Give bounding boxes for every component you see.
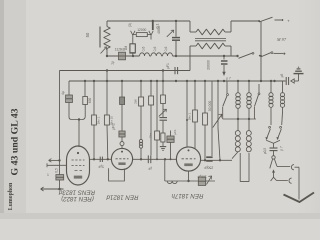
column x157 grid resistor Dkr10	[156, 81, 158, 131]
capacitor coupling V1-V2	[99, 157, 101, 162]
node x79 y119.5	[78, 118, 80, 120]
capacitor electrolytic 100uF	[198, 177, 205, 185]
column x69 capacitor 4u	[68, 81, 70, 95]
node top rail junction x153	[152, 20, 154, 22]
tube V1 cathode bar	[74, 176, 82, 179]
node bus x249	[248, 80, 250, 82]
wire blades converge	[266, 140, 280, 143]
wire V3 anode to transformer	[201, 159, 232, 161]
node grid rail x163	[162, 69, 164, 71]
wire y119	[223, 118, 256, 120]
svg-text:2W: 2W	[134, 99, 138, 104]
wire x165 riser	[164, 159, 166, 181]
output transformer winding left	[235, 131, 240, 136]
svg-text:M 97: M 97	[276, 37, 287, 42]
coil bank winding B x249	[248, 81, 250, 93]
wire V3 cathode rail	[188, 171, 190, 181]
connector circle	[272, 156, 275, 159]
tube V2 cathode bar	[118, 162, 125, 165]
capacitor x170 hatched	[170, 131, 172, 137]
svg-text:1: 1	[47, 173, 49, 177]
tube V2 grid dash	[116, 158, 129, 160]
resistor R1 50k vertical	[106, 21, 108, 27]
wire left column x59.5	[59, 71, 61, 175]
wire jack to frame	[295, 166, 300, 168]
switch blades to pickup	[269, 126, 271, 128]
choke cathode bumps	[167, 181, 177, 184]
node bus x151	[150, 80, 152, 82]
svg-text:Dkr 1: Dkr 1	[188, 113, 192, 121]
wire prong to jack upper	[277, 166, 290, 168]
wire AF input line	[49, 159, 60, 161]
IF transformer primary winding zigzag	[196, 29, 225, 35]
capacitor on grid rail x176	[174, 67, 176, 74]
resistor 13,5k series box on heater rail	[119, 52, 126, 60]
resistor 1M box	[130, 44, 135, 53]
wire between chokes b	[162, 55, 163, 57]
svg-text:Dkr 1: Dkr 1	[97, 117, 101, 125]
wire IF transformer top lead	[189, 21, 191, 32]
capacitor input hatched	[56, 175, 64, 180]
wire ground bus bottom left	[41, 188, 64, 190]
wire grid rail y70.5	[60, 70, 191, 72]
svg-text:REN 1817h: REN 1817h	[171, 192, 204, 199]
svg-text:μF/2: μF/2	[112, 123, 116, 130]
svg-text:Dkr: Dkr	[149, 133, 153, 138]
node y119 A	[237, 118, 239, 120]
node bus x195	[194, 80, 196, 82]
svg-text:5μF: 5μF	[98, 165, 104, 169]
coil bank winding C x271	[270, 81, 272, 93]
node x176 junction	[175, 55, 177, 57]
wire transformer U loop	[240, 153, 249, 181]
node x224 junction	[223, 55, 225, 57]
plug fork lower	[271, 177, 277, 181]
capacitor with arrow above bus at x224	[223, 56, 225, 60]
node anode x94	[93, 158, 95, 160]
capacitor coupling V2-V3	[147, 155, 149, 163]
label 50	[99, 27, 101, 48]
node ground bus	[58, 188, 61, 191]
node anode2 x165	[164, 158, 166, 160]
node bus x163	[162, 80, 164, 82]
svg-text:0,5: 0,5	[55, 168, 59, 173]
coil bank winding D x282.5	[282, 81, 284, 93]
node cathode rail	[187, 180, 189, 182]
node bus x224	[223, 80, 225, 82]
switch S1 top right	[258, 20, 260, 22]
column x94 resistor Dkr1	[93, 81, 95, 115]
svg-text:30 000: 30 000	[208, 101, 212, 112]
svg-text:4μ: 4μ	[61, 91, 65, 95]
svg-text:G 43 und GL 43: G 43 und GL 43	[10, 108, 21, 175]
svg-text:0,6: 0,6	[164, 47, 168, 52]
frame antenna chevron	[284, 193, 315, 203]
node bus x85	[84, 80, 86, 82]
svg-text:4000: 4000	[157, 26, 161, 34]
tube V2 top dot	[121, 151, 123, 153]
node bus x271	[270, 80, 272, 82]
wire top rail y21	[107, 20, 190, 22]
node bus x238	[237, 80, 239, 82]
column x163 tone chain	[162, 71, 164, 96]
wire grid stub into V1	[47, 164, 67, 166]
svg-text:1μ: 1μ	[111, 61, 115, 65]
node x261 on heater rail	[260, 55, 262, 57]
node bus x218	[217, 80, 219, 82]
svg-text:(REN 1822): (REN 1822)	[61, 195, 94, 202]
svg-text:1M: 1M	[124, 45, 128, 50]
node y119 B	[248, 118, 250, 120]
capacitor 250pF dark	[206, 156, 212, 158]
IF transformer secondary winding zigzag	[196, 43, 225, 49]
wire mains pole x261	[260, 21, 262, 81]
IF transformer core	[195, 38, 226, 40]
column x107 resistor Dkr10	[106, 71, 108, 116]
column x85 resistor 650	[84, 81, 86, 97]
node bus x205	[204, 80, 206, 82]
node bus x274.5	[273, 80, 275, 82]
capacitor 0,1 stub from top rail	[152, 21, 154, 30]
terminal Y1 with stem	[131, 31, 135, 35]
wire to lamp terminal	[274, 52, 284, 54]
wire lower fork to jack	[277, 180, 288, 182]
switch S2b blade	[259, 55, 261, 57]
jack socket lower	[289, 178, 292, 183]
svg-text:p 7: p 7	[226, 77, 231, 81]
node anode3 x220	[219, 159, 221, 161]
node anode3 x205	[204, 159, 206, 161]
tube V1 top cap dot	[77, 152, 79, 154]
svg-text:(3): (3)	[128, 23, 132, 27]
svg-text:650: 650	[88, 98, 92, 104]
svg-text:Lumophon: Lumophon	[8, 182, 14, 210]
tube V3 grid dash	[182, 158, 196, 160]
trimmer capacitor column x176	[175, 21, 177, 37]
svg-text:+: +	[287, 19, 290, 24]
node anode2 x157	[156, 158, 158, 160]
node bus x157	[156, 80, 158, 82]
resistor box x163 lower	[161, 133, 165, 142]
terminal Y2 with stem	[149, 31, 153, 35]
node bus x141	[140, 80, 142, 82]
switch S2a blade	[239, 53, 253, 58]
coil small x141	[139, 139, 142, 142]
node x59.5 y160.4	[58, 159, 60, 161]
capacitor hatched x122	[119, 131, 125, 137]
svg-text:100μF: 100μF	[197, 175, 206, 179]
node x237 junction	[236, 55, 238, 57]
svg-text:RENS 1823d: RENS 1823d	[58, 189, 95, 196]
svg-text:p 7: p 7	[280, 146, 284, 151]
column x151 resistor	[150, 81, 152, 96]
choke L1 bumps	[140, 53, 150, 56]
tube V3 top dot	[188, 149, 190, 151]
svg-text:μ0,5: μ0,5	[263, 148, 267, 154]
node anode2 x141	[140, 158, 142, 160]
svg-text:50: 50	[85, 32, 90, 37]
column x205 resistor	[204, 81, 206, 113]
svg-text:0,6: 0,6	[142, 47, 146, 52]
column x141 anode load of tube2	[140, 81, 142, 97]
trimmer arrow	[167, 31, 173, 37]
wire transformer left bottom lead	[232, 152, 238, 159]
svg-text:250pF: 250pF	[204, 166, 213, 170]
node bus x107	[106, 80, 108, 82]
svg-text:μF: μF	[148, 167, 152, 171]
plug arrow antenna	[291, 79, 294, 83]
column x218 volume pot line	[217, 81, 219, 128]
pot arrow	[213, 115, 222, 128]
node bus x94	[93, 80, 95, 82]
node bus x176	[175, 80, 177, 82]
variable capacitor x163	[160, 117, 168, 119]
node anode2 x170	[170, 158, 172, 160]
antenna earth symbol	[294, 73, 304, 75]
svg-text:20000: 20000	[207, 60, 211, 70]
wire antenna stem	[298, 74, 300, 81]
node anode x108	[107, 158, 109, 160]
choke L3 bumps	[163, 53, 173, 56]
tube V1 RENS1823d envelope	[67, 146, 90, 185]
switch blade x227	[226, 81, 228, 93]
capacitor pickup 0,5	[270, 147, 278, 149]
node bus x187	[186, 80, 188, 82]
tube V1 inner ticks	[75, 170, 78, 172]
node bus x122	[121, 80, 123, 82]
tube V3 output envelope	[176, 147, 200, 171]
node top rail junction x176	[175, 20, 177, 22]
wire V1 anode to coupling	[90, 158, 113, 160]
node x107 junction	[106, 55, 108, 57]
resistor box x132 on heater rail	[130, 44, 135, 53]
node x187 y120	[186, 119, 188, 121]
column x187 grid feed tube3	[186, 81, 188, 147]
resistor dark x122	[120, 97, 125, 105]
wire IF right leads	[225, 31, 231, 33]
grid cap clip circle tube2	[120, 142, 124, 146]
resistor 12000 box horizontal	[136, 33, 147, 37]
arrow electrolytic	[207, 177, 212, 185]
svg-text:μ5: μ5	[280, 73, 284, 77]
svg-text:μF1: μF1	[166, 63, 170, 69]
jack socket upper	[291, 165, 294, 170]
svg-text:REN 1821d: REN 1821d	[106, 194, 139, 201]
wire main bus y81	[69, 80, 286, 82]
svg-text:μF1: μF1	[173, 129, 177, 135]
node bus x261	[260, 80, 262, 82]
choke L2 bumps	[151, 53, 162, 56]
column x195 resistor	[194, 81, 196, 110]
svg-text:0,6: 0,6	[153, 47, 157, 52]
plug fork prongs	[270, 159, 273, 168]
column x212 to coupling cap	[211, 81, 213, 156]
wire between chokes a	[150, 55, 152, 57]
capacitor antenna coupling	[285, 77, 287, 85]
column x122 screen feed to tube2	[121, 81, 123, 97]
svg-text:12000: 12000	[137, 28, 146, 32]
node grid rail x107	[106, 69, 108, 71]
ground x163	[160, 146, 166, 148]
tube V1 grid dashes	[72, 159, 85, 161]
tube V2 heater loop	[109, 168, 125, 181]
wire heater rail y56	[107, 55, 140, 57]
tube V2 REN1821d envelope	[111, 148, 132, 169]
switch blade mid coils	[258, 84, 260, 93]
output transformer winding right	[246, 131, 251, 136]
wiper arrow of R1	[101, 48, 107, 54]
wire V2 anode	[133, 158, 177, 160]
column x79 to tube1 top	[78, 120, 80, 148]
plug arrow vertical	[273, 171, 275, 177]
wire IF secondary left lead down to grid rail	[190, 45, 196, 47]
tube V3 cathode bar	[184, 163, 192, 166]
node x133 junction	[132, 55, 134, 57]
coil bank winding A x238	[237, 81, 239, 93]
